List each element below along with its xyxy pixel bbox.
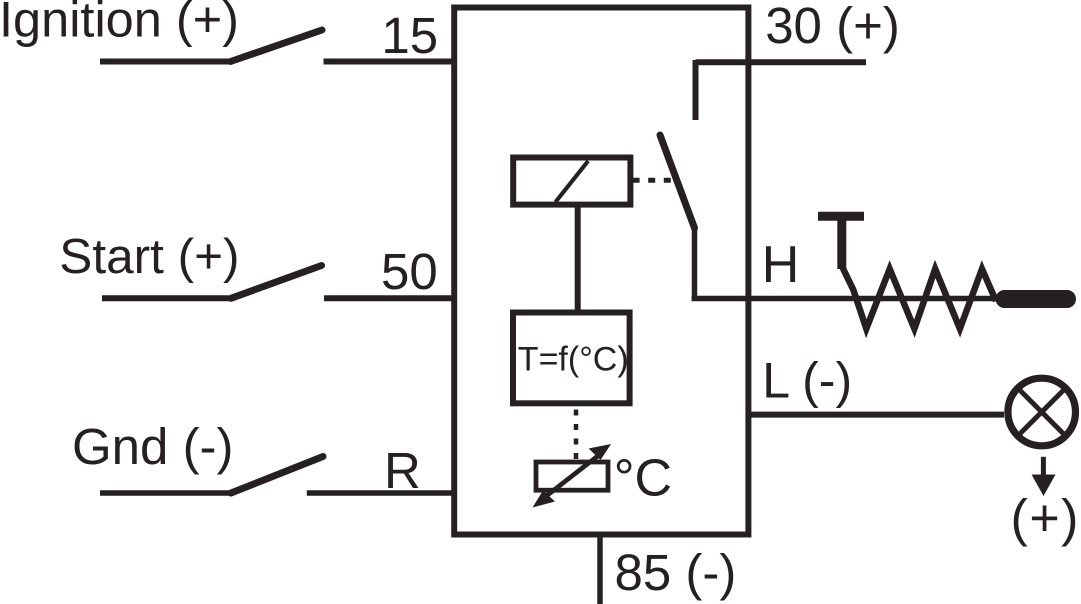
svg-text:Ignition (+): Ignition (+) [0, 0, 239, 47]
svg-text:H: H [762, 236, 800, 294]
svg-text:Gnd (-): Gnd (-) [72, 418, 234, 475]
svg-text:(+): (+) [1011, 490, 1081, 548]
svg-text:L (-): L (-) [762, 353, 852, 409]
svg-text:°C: °C [614, 450, 672, 508]
svg-text:30 (+): 30 (+) [765, 0, 900, 54]
svg-text:T=f(°C): T=f(°C) [518, 340, 629, 378]
svg-text:50: 50 [381, 243, 438, 300]
svg-text:15: 15 [381, 7, 438, 64]
svg-text:Start (+): Start (+) [59, 229, 239, 284]
svg-text:85 (-): 85 (-) [615, 544, 737, 601]
svg-text:R: R [384, 442, 421, 499]
